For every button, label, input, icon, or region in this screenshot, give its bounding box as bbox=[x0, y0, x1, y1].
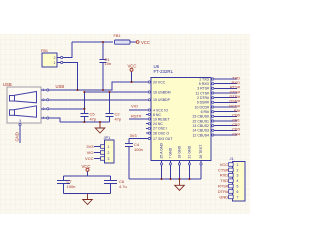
svg-text:RTS#: RTS# bbox=[218, 184, 229, 189]
svg-text:4: 4 bbox=[43, 116, 45, 120]
svg-text:8 NC: 8 NC bbox=[153, 113, 161, 117]
svg-text:3: 3 bbox=[108, 157, 110, 161]
svg-text:17 3V3 OUT: 17 3V3 OUT bbox=[153, 137, 173, 141]
svg-text:7 GND: 7 GND bbox=[169, 147, 173, 158]
svg-text:9 DSR#: 9 DSR# bbox=[197, 101, 209, 105]
svg-text:VCC: VCC bbox=[128, 63, 137, 68]
svg-text:22 CBUS1: 22 CBUS1 bbox=[192, 119, 209, 123]
svg-text:VCC: VCC bbox=[220, 162, 229, 167]
svg-text:JP1: JP1 bbox=[104, 135, 112, 140]
svg-text:3V3: 3V3 bbox=[130, 133, 138, 138]
svg-text:7: 7 bbox=[237, 195, 239, 199]
svg-text:USB: USB bbox=[56, 84, 65, 89]
svg-text:12 CBUS4: 12 CBUS4 bbox=[192, 133, 209, 137]
svg-text:10 DCD#: 10 DCD# bbox=[195, 105, 209, 109]
svg-text:24 NC: 24 NC bbox=[153, 122, 163, 126]
svg-text:FB1: FB1 bbox=[41, 49, 48, 53]
svg-text:18 GND: 18 GND bbox=[178, 145, 182, 158]
svg-text:DTR#: DTR# bbox=[218, 189, 229, 194]
svg-text:VCC: VCC bbox=[82, 164, 91, 169]
svg-text:GND: GND bbox=[219, 194, 228, 199]
svg-text:1: 1 bbox=[237, 163, 239, 167]
svg-text:5: 5 bbox=[237, 185, 239, 189]
svg-text:19 RESET: 19 RESET bbox=[153, 117, 170, 121]
svg-text:6: 6 bbox=[237, 190, 239, 194]
svg-text:VIO: VIO bbox=[87, 150, 94, 155]
svg-text:1: 1 bbox=[43, 88, 45, 92]
svg-text:3: 3 bbox=[43, 107, 45, 111]
svg-text:CTS#: CTS# bbox=[218, 167, 229, 172]
svg-text:2 DTR#: 2 DTR# bbox=[197, 96, 209, 100]
svg-text:VCC: VCC bbox=[141, 40, 150, 45]
svg-text:2: 2 bbox=[54, 56, 56, 60]
svg-text:USB: USB bbox=[3, 82, 12, 87]
svg-text:4.7u: 4.7u bbox=[119, 184, 127, 189]
svg-text:11 CTS#: 11 CTS# bbox=[195, 91, 209, 95]
svg-text:15 USBDP: 15 USBDP bbox=[153, 98, 171, 102]
svg-text:20 VCC: 20 VCC bbox=[153, 80, 166, 84]
svg-text:2: 2 bbox=[108, 151, 110, 155]
svg-text:FT-232RL: FT-232RL bbox=[154, 69, 174, 74]
svg-text:27 OSC I: 27 OSC I bbox=[153, 127, 167, 131]
svg-text:47p: 47p bbox=[115, 117, 122, 122]
svg-text:6 RI#: 6 RI# bbox=[201, 110, 209, 114]
svg-text:28 OSC O: 28 OSC O bbox=[153, 131, 169, 135]
svg-text:GND: GND bbox=[15, 132, 20, 141]
svg-text:1 TXD: 1 TXD bbox=[199, 77, 209, 81]
svg-text:2: 2 bbox=[43, 98, 45, 102]
svg-text:1: 1 bbox=[108, 145, 110, 149]
svg-text:47p: 47p bbox=[90, 117, 97, 122]
svg-text:3: 3 bbox=[237, 174, 239, 178]
svg-text:5: 5 bbox=[20, 119, 22, 123]
svg-text:10n: 10n bbox=[105, 61, 112, 66]
svg-text:2: 2 bbox=[237, 168, 239, 172]
svg-text:4 VCC IO: 4 VCC IO bbox=[153, 108, 168, 112]
svg-text:23 CBUS0: 23 CBUS0 bbox=[192, 115, 209, 119]
svg-text:FB1: FB1 bbox=[114, 34, 121, 38]
svg-text:TXD: TXD bbox=[220, 178, 228, 183]
svg-text:16 USBDM: 16 USBDM bbox=[153, 90, 171, 94]
svg-text:CB4: CB4 bbox=[232, 131, 241, 136]
svg-text:VIO: VIO bbox=[131, 104, 138, 109]
svg-text:100n: 100n bbox=[67, 184, 76, 189]
svg-text:5 RXD: 5 RXD bbox=[199, 82, 210, 86]
svg-text:21 GND: 21 GND bbox=[188, 145, 192, 158]
svg-text:4: 4 bbox=[237, 179, 239, 183]
svg-text:3V3: 3V3 bbox=[86, 144, 94, 149]
svg-text:RXD: RXD bbox=[220, 173, 229, 178]
svg-text:25 A GND: 25 A GND bbox=[160, 142, 164, 158]
svg-text:3 RTS#: 3 RTS# bbox=[197, 87, 209, 91]
svg-text:100n: 100n bbox=[134, 147, 143, 152]
svg-text:VCC: VCC bbox=[85, 156, 94, 161]
svg-text:13 CBUS2: 13 CBUS2 bbox=[192, 124, 209, 128]
svg-text:14 CBUS3: 14 CBUS3 bbox=[192, 129, 209, 133]
svg-text:1: 1 bbox=[54, 61, 56, 65]
svg-text:RST#: RST# bbox=[131, 114, 142, 119]
svg-text:26 TEST: 26 TEST bbox=[199, 144, 203, 159]
